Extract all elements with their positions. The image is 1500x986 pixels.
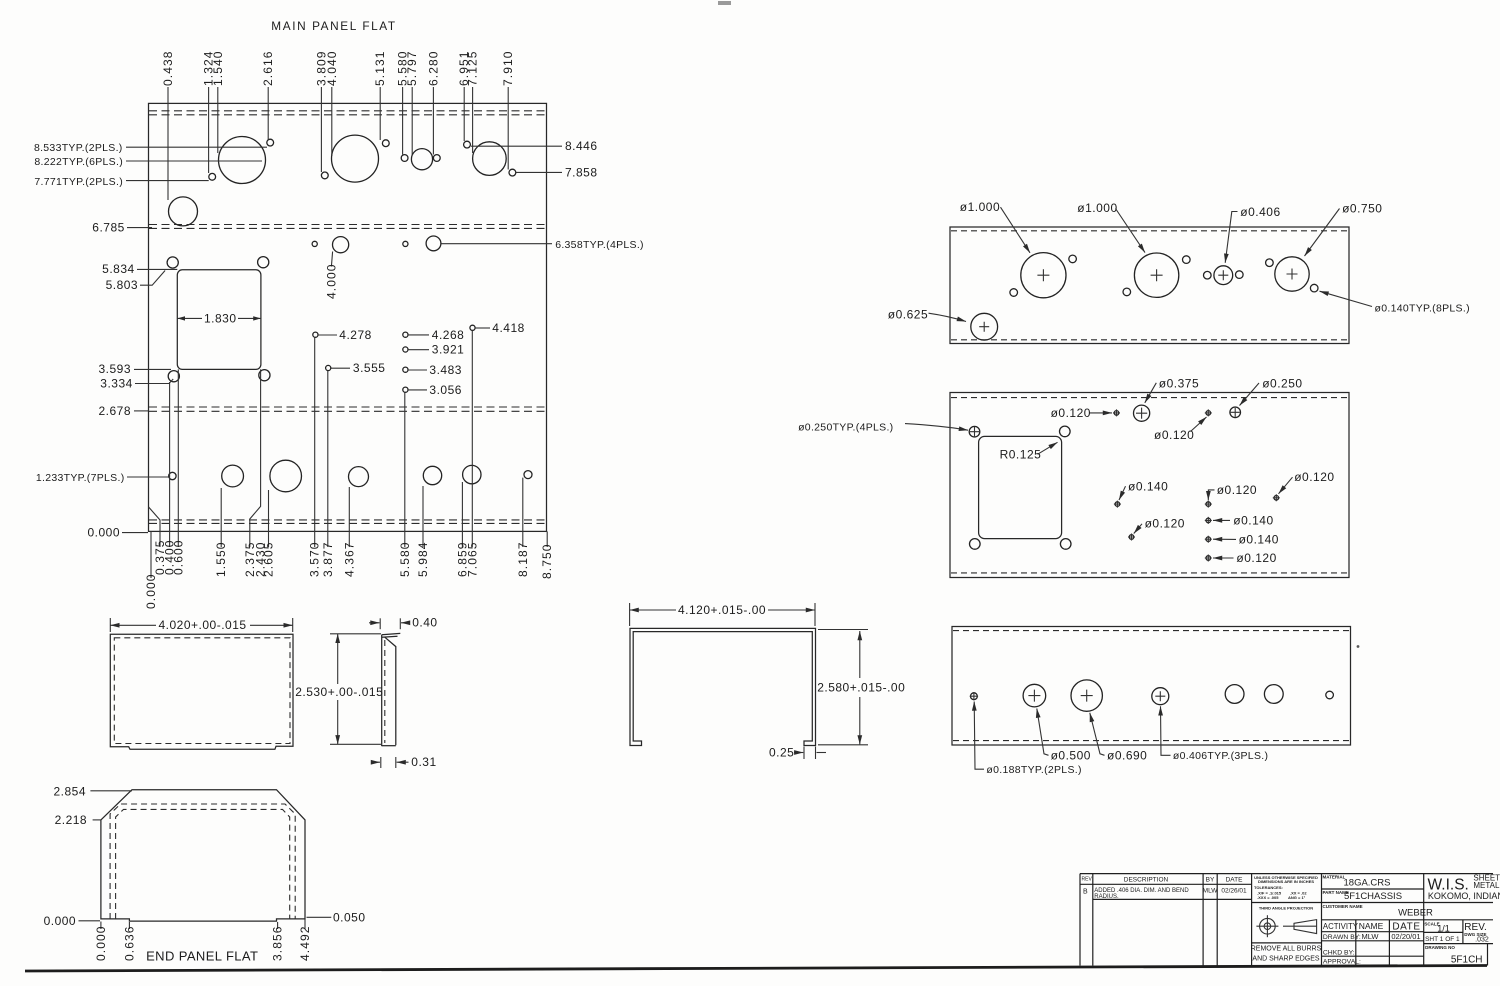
svg-text:ACTIVITY: ACTIVITY [1323,922,1359,931]
svg-text:8.187: 8.187 [516,541,530,577]
svg-text:CUSTOMER NAME: CUSTOMER NAME [1323,904,1363,909]
svg-text:0.31: 0.31 [411,755,436,769]
svg-text:4.492: 4.492 [298,925,312,961]
svg-text:5.803: 5.803 [106,278,139,292]
svg-text:ø0.140: ø0.140 [1128,479,1168,493]
svg-text:2.605: 2.605 [262,541,276,577]
svg-text:DATE: DATE [1226,877,1244,884]
svg-text:ø1.000: ø1.000 [960,200,1000,214]
svg-text:ø0.120: ø0.120 [1217,483,1257,497]
svg-text:ø0.250TYP.(4PLS.): ø0.250TYP.(4PLS.) [798,421,893,433]
svg-text:ø0.140: ø0.140 [1239,532,1279,546]
svg-text:3.570: 3.570 [308,541,322,577]
svg-text:0.636: 0.636 [122,925,136,961]
svg-text:0.000: 0.000 [44,914,77,928]
svg-text:1.233TYP.(7PLS.): 1.233TYP.(7PLS.) [36,472,125,484]
svg-text:1.540: 1.540 [211,50,225,86]
svg-text:2.218: 2.218 [55,813,88,827]
svg-text:3.593: 3.593 [98,362,131,376]
svg-text:4.268: 4.268 [432,328,465,342]
svg-text:WEBER: WEBER [1398,908,1433,919]
svg-text:6.785: 6.785 [92,221,125,235]
svg-text:2.678: 2.678 [98,404,131,418]
svg-text:B: B [1083,889,1088,896]
svg-text:0.000: 0.000 [94,925,108,961]
svg-text:4.278: 4.278 [339,328,372,342]
svg-text:THIRD ANGLE PROJECTION: THIRD ANGLE PROJECTION [1259,906,1313,911]
svg-text:0.000: 0.000 [87,526,120,540]
svg-text:8.222TYP.(6PLS.): 8.222TYP.(6PLS.) [34,156,123,168]
svg-text:METAL: METAL [1473,881,1500,890]
svg-text:0.000: 0.000 [144,573,158,609]
svg-text:4.120+.015-.00: 4.120+.015-.00 [678,603,766,617]
svg-text:1/1: 1/1 [1437,923,1450,933]
svg-text:7.125: 7.125 [466,50,480,86]
svg-text:.XXX = .005: .XXX = .005 [1257,895,1279,900]
svg-text:MAIN PANEL FLAT: MAIN PANEL FLAT [271,19,396,33]
svg-text:0.600: 0.600 [171,539,185,575]
svg-text:REV: REV [1082,877,1093,883]
svg-text:APPROVAL:: APPROVAL: [1323,959,1361,966]
svg-text:DRAWING NO: DRAWING NO [1425,945,1455,950]
svg-text:R0.125: R0.125 [1000,448,1042,462]
svg-text:DESCRIPTION: DESCRIPTION [1124,877,1169,884]
svg-text:MATERIAL: MATERIAL [1323,874,1346,879]
svg-text:ø0.188TYP.(2PLS.): ø0.188TYP.(2PLS.) [986,764,1081,776]
svg-text:0.050: 0.050 [333,910,366,924]
svg-text:4.367: 4.367 [342,541,356,577]
svg-text:MLW: MLW [1362,932,1380,941]
svg-text:0.25: 0.25 [769,745,794,759]
svg-text:02/20/01: 02/20/01 [1391,932,1420,941]
svg-text:2.616: 2.616 [261,50,275,86]
svg-text:02/26/01: 02/26/01 [1221,888,1247,895]
svg-text:0.438: 0.438 [161,50,175,86]
svg-text:3.856: 3.856 [271,925,285,961]
svg-text:5F1CHASSIS: 5F1CHASSIS [1344,891,1402,902]
svg-text:3.555: 3.555 [353,361,386,375]
svg-text:3.877: 3.877 [321,541,335,577]
svg-text:7.910: 7.910 [501,50,515,86]
svg-text:ø1.000: ø1.000 [1077,201,1117,215]
svg-text:18GA.CRS: 18GA.CRS [1344,878,1391,889]
svg-text:3.334: 3.334 [100,376,133,390]
svg-text:5.984: 5.984 [416,541,430,577]
svg-text:DRAWN BY:: DRAWN BY: [1323,934,1361,941]
svg-text:DATE: DATE [1392,922,1420,933]
svg-text:4.040: 4.040 [325,50,339,86]
svg-text:REMOVE ALL BURRS: REMOVE ALL BURRS [1251,946,1322,953]
svg-text:8.533TYP.(2PLS.): 8.533TYP.(2PLS.) [34,142,123,154]
svg-text:ø0.140TYP.(8PLS.): ø0.140TYP.(8PLS.) [1375,303,1470,315]
svg-text:ø0.120: ø0.120 [1051,406,1091,420]
svg-text:7.065: 7.065 [465,541,479,577]
svg-text:RADIUS.: RADIUS. [1094,894,1119,900]
svg-text:ø0.750: ø0.750 [1342,202,1382,216]
svg-text:ø0.120: ø0.120 [1145,517,1185,531]
svg-text:5.131: 5.131 [373,50,387,86]
svg-text:2.854: 2.854 [53,784,86,798]
svg-text:3.921: 3.921 [432,343,465,357]
svg-text:ANG = 1°: ANG = 1° [1288,895,1306,900]
svg-text:8.446: 8.446 [565,139,598,153]
svg-text:1.830: 1.830 [204,311,237,325]
svg-text:3.483: 3.483 [429,363,462,377]
svg-text:DIMENSIONS ARE IN INCHES: DIMENSIONS ARE IN INCHES [1258,879,1314,884]
svg-text:ø0.375: ø0.375 [1159,376,1199,390]
svg-text:ADDED .406 DIA. DIM. AND: ADDED .406 DIA. DIM. AND BEND [1094,888,1189,894]
svg-text:ø0.140: ø0.140 [1233,514,1273,528]
svg-text:ø0.250: ø0.250 [1262,376,1302,390]
svg-text:AND SHARP EDGES: AND SHARP EDGES [1252,955,1319,962]
svg-text:.032: .032 [1475,937,1489,944]
svg-text:MLW: MLW [1203,888,1219,895]
svg-text:TOLERANCES:: TOLERANCES: [1254,885,1283,890]
svg-text:END PANEL FLAT: END PANEL FLAT [146,949,258,964]
svg-text:BY: BY [1206,877,1215,884]
svg-text:NAME: NAME [1359,921,1384,931]
svg-text:CHKD BY:: CHKD BY: [1323,950,1355,957]
svg-text:ø0.120: ø0.120 [1154,428,1194,442]
svg-text:5.797: 5.797 [405,50,419,86]
svg-text:ø0.406TYP.(3PLS.): ø0.406TYP.(3PLS.) [1173,750,1268,762]
svg-text:6.280: 6.280 [426,50,440,86]
svg-text:4.020+.00-.015: 4.020+.00-.015 [159,618,247,632]
svg-text:8.750: 8.750 [540,543,554,579]
svg-text:5.580: 5.580 [398,541,412,577]
svg-text:4.418: 4.418 [492,321,525,335]
svg-text:2.580+.015-.00: 2.580+.015-.00 [817,680,905,694]
svg-text:ø0.120: ø0.120 [1294,470,1334,484]
svg-text:ø0.406: ø0.406 [1240,205,1280,219]
svg-text:ø0.120: ø0.120 [1236,551,1276,565]
svg-text:ø0.500: ø0.500 [1051,749,1091,763]
svg-text:6.358TYP.(4PLS.): 6.358TYP.(4PLS.) [555,239,644,251]
svg-text:ø0.690: ø0.690 [1107,749,1147,763]
svg-text:7.858: 7.858 [565,165,598,179]
svg-text:ø0.625: ø0.625 [888,307,928,321]
svg-text:7.771TYP.(2PLS.): 7.771TYP.(2PLS.) [34,176,123,188]
svg-text:2.530+.00-.015: 2.530+.00-.015 [295,685,383,699]
svg-text:5.834: 5.834 [102,262,135,276]
svg-text:SHT 1 OF 1: SHT 1 OF 1 [1425,936,1460,943]
svg-text:KOKOMO, INDIANA: KOKOMO, INDIANA [1428,891,1500,901]
svg-text:3.056: 3.056 [429,383,462,397]
svg-text:4.000: 4.000 [324,263,338,299]
svg-text:1.550: 1.550 [214,541,228,577]
svg-text:5F1CH: 5F1CH [1451,954,1483,965]
svg-text:0.40: 0.40 [412,616,437,630]
